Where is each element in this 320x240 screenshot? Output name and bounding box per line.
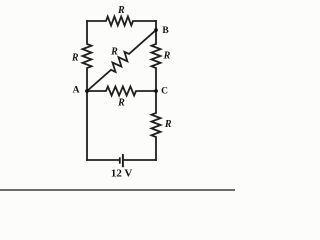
svg-text:B: B (162, 26, 169, 36)
svg-text:R: R (117, 5, 125, 16)
svg-text:R: R (163, 51, 171, 62)
svg-text:R: R (110, 47, 118, 58)
svg-text:R: R (117, 98, 125, 109)
svg-text:A: A (73, 86, 80, 96)
svg-text:R: R (164, 119, 172, 130)
svg-text:12 V: 12 V (111, 168, 133, 180)
svg-text:R: R (71, 53, 79, 64)
svg-text:C: C (161, 86, 168, 96)
